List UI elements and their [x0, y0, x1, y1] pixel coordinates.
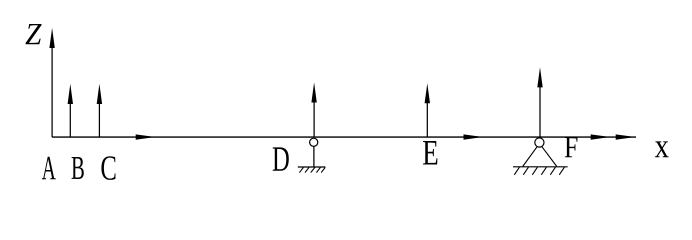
label F [565, 137, 578, 157]
pin support F: ground line [513, 166, 568, 168]
force arrow at B head [68, 84, 73, 104]
force arrow at D head [311, 82, 316, 102]
pin support F: hinge circle [535, 138, 544, 147]
label Z [25, 24, 41, 44]
roller support D: hinge circle [310, 138, 318, 146]
force arrow at B shaft [69, 101, 71, 137]
label E [423, 141, 437, 164]
x-axis arrowhead [616, 134, 636, 139]
force arrow at F head [537, 67, 542, 87]
beam / x-axis line [52, 136, 636, 138]
force arrow at F shaft [539, 85, 541, 137]
Z axis shaft [51, 45, 53, 137]
label x [655, 141, 669, 157]
Z axis arrowhead [49, 28, 54, 48]
force arrow at D shaft [313, 100, 315, 137]
force arrow at C head [97, 84, 102, 104]
horizontal force arrow right of F [591, 134, 611, 139]
force arrow at C shaft [98, 101, 100, 137]
force arrow at E shaft [426, 101, 428, 138]
pin support F: triangle left side [523, 147, 538, 167]
horizontal force arrow near E [464, 134, 484, 139]
roller support D: ground line [298, 166, 326, 168]
force arrow at E head [425, 83, 430, 103]
pin support F: ground hatching [514, 167, 564, 175]
label A [42, 157, 56, 180]
roller support D: post [313, 146, 315, 167]
label D [273, 147, 289, 170]
label B [72, 157, 84, 179]
label C [101, 156, 115, 180]
roller support D: ground hatching [299, 167, 325, 172]
pin support F: triangle right side [542, 147, 557, 167]
horizontal force arrow near C [136, 134, 156, 139]
